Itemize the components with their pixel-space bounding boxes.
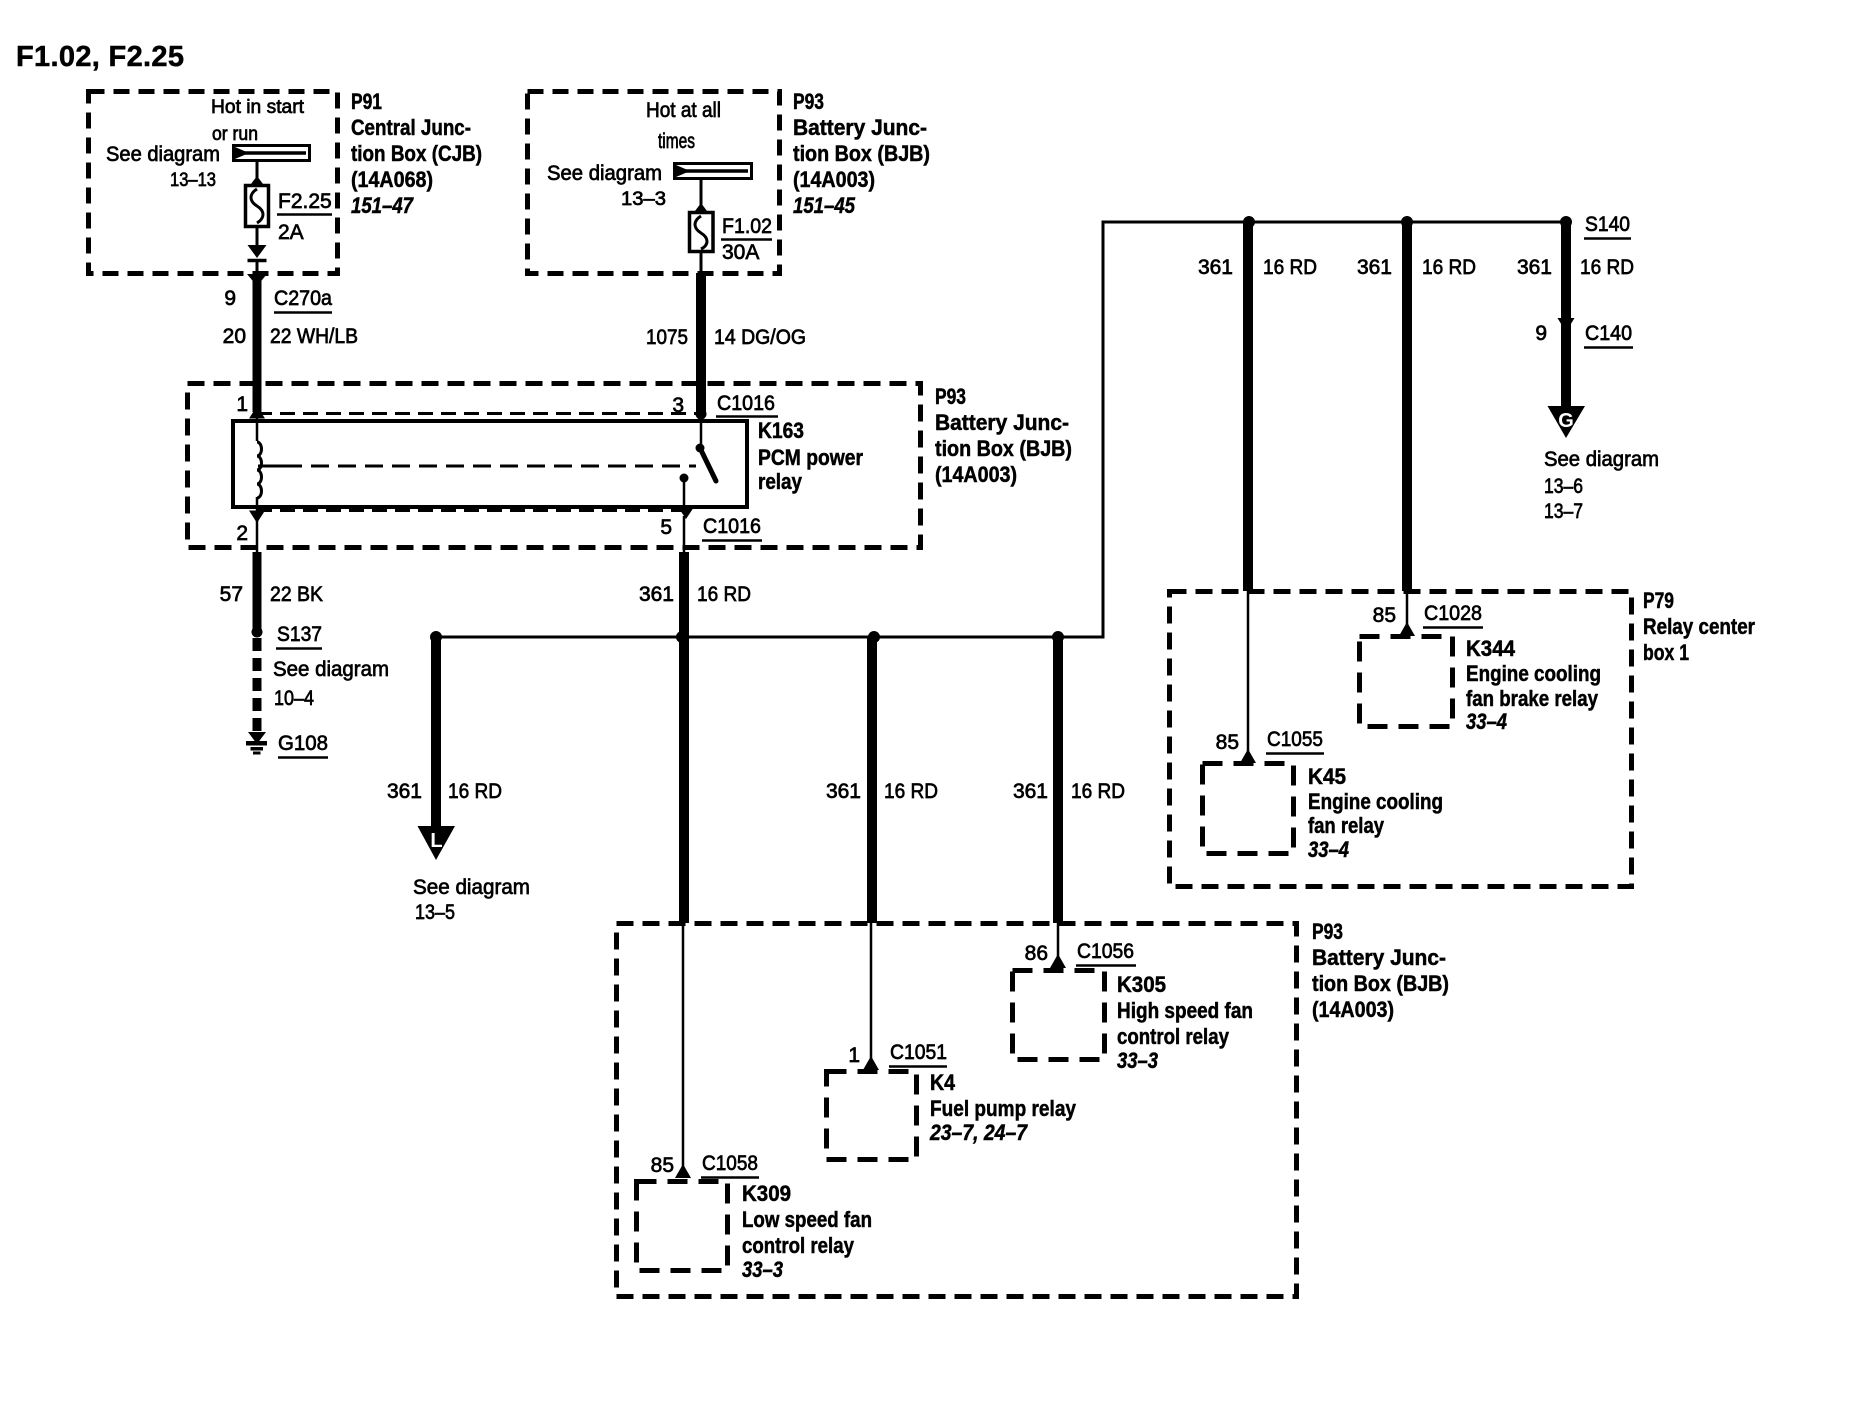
svg-text:C1028: C1028 bbox=[1424, 602, 1482, 625]
svg-text:9: 9 bbox=[1535, 322, 1547, 345]
svg-text:33–3: 33–3 bbox=[742, 1257, 783, 1282]
label K163 PCM power relay bbox=[758, 418, 863, 494]
svg-text:361: 361 bbox=[1198, 256, 1233, 279]
arrow at connector C140 bbox=[1558, 318, 1575, 332]
svg-text:fan relay: fan relay bbox=[1308, 813, 1385, 838]
svg-text:(14A068): (14A068) bbox=[351, 167, 433, 192]
label circuit 361 / 16 RD (below pin 5) bbox=[639, 583, 751, 606]
svg-text:16 RD: 16 RD bbox=[697, 583, 751, 606]
svg-text:85: 85 bbox=[1216, 731, 1239, 754]
label K45 Engine cooling fan relay bbox=[1308, 764, 1443, 862]
svg-text:K309: K309 bbox=[742, 1181, 791, 1206]
svg-text:K45: K45 bbox=[1308, 764, 1346, 789]
svg-text:Engine cooling: Engine cooling bbox=[1308, 789, 1443, 814]
label S140 bbox=[1584, 213, 1631, 239]
label circuit 1075 / 14 DG/OG bbox=[646, 326, 806, 349]
label pin 9 / connector C270a bbox=[224, 287, 332, 313]
fuse F2.25 bbox=[246, 186, 269, 227]
relay K309 (dashed) bbox=[637, 1182, 728, 1271]
svg-text:P93: P93 bbox=[935, 384, 966, 409]
svg-text:151–45: 151–45 bbox=[793, 193, 856, 218]
relay K305 (dashed) bbox=[1013, 971, 1105, 1060]
svg-text:13–3: 13–3 bbox=[621, 189, 666, 210]
svg-text:86: 86 bbox=[1025, 942, 1048, 965]
diode symbol in P91 bbox=[248, 245, 267, 261]
off-page arrow L bbox=[418, 826, 456, 860]
svg-text:Low speed fan: Low speed fan bbox=[742, 1207, 872, 1232]
fuse F1.02 bbox=[690, 213, 714, 252]
wire thin to K45 pin bbox=[1247, 591, 1250, 755]
svg-text:2: 2 bbox=[236, 522, 248, 545]
label K305 High speed fan control relay bbox=[1117, 972, 1253, 1073]
svg-text:361: 361 bbox=[826, 780, 861, 803]
svg-text:G108: G108 bbox=[278, 732, 328, 755]
svg-text:F1.02: F1.02 bbox=[722, 215, 772, 238]
switch blade (open) bbox=[700, 448, 716, 481]
svg-text:tion Box (BJB): tion Box (BJB) bbox=[935, 436, 1072, 461]
splice dot S140 bbox=[1560, 216, 1572, 228]
svg-text:tion Box (CJB): tion Box (CJB) bbox=[351, 141, 482, 166]
svg-text:See diagram: See diagram bbox=[273, 658, 389, 681]
label P93 Battery Junction Box (BJB) bottom bbox=[1312, 919, 1449, 1022]
wire thin to K305 pin bbox=[1057, 923, 1060, 960]
wire busbar to fuse F1.02 bbox=[700, 179, 703, 207]
splice dot on top bus at K45 branch bbox=[1243, 216, 1255, 228]
svg-text:361: 361 bbox=[1517, 256, 1552, 279]
splice dot on top bus at K344 branch bbox=[1401, 216, 1413, 228]
label K344 Engine cooling fan brake relay bbox=[1466, 636, 1601, 734]
svg-text:22 BK: 22 BK bbox=[270, 583, 323, 606]
label P79 Relay center box 1 bbox=[1643, 588, 1755, 665]
splice node S137 bbox=[252, 627, 263, 638]
relay coil K163 bbox=[257, 442, 262, 498]
wire branch to K4 down from junction bbox=[867, 637, 877, 923]
svg-text:Engine cooling: Engine cooling bbox=[1466, 661, 1601, 686]
svg-text:See diagram: See diagram bbox=[1544, 448, 1659, 471]
svg-text:9: 9 bbox=[224, 287, 236, 310]
svg-text:control relay: control relay bbox=[1117, 1024, 1230, 1049]
svg-text:F1.02, F2.25: F1.02, F2.25 bbox=[16, 41, 184, 73]
switch contact dot bbox=[696, 444, 705, 453]
label pin 85 / connector C1028 bbox=[1373, 602, 1483, 628]
wire 16 RD down to K344 bbox=[1402, 222, 1412, 591]
svg-text:5: 5 bbox=[660, 516, 672, 539]
svg-text:16 RD: 16 RD bbox=[1071, 780, 1125, 803]
wire 16 RD down to K45 bbox=[1243, 222, 1253, 591]
wire thin to K344 pin bbox=[1406, 591, 1409, 628]
svg-text:3: 3 bbox=[672, 394, 684, 417]
label F1.02 / 30A bbox=[721, 215, 772, 264]
svg-text:14 DG/OG: 14 DG/OG bbox=[714, 326, 806, 349]
junction box P93 (Battery Junction Box top, dashed) bbox=[528, 92, 780, 274]
svg-text:fan brake relay: fan brake relay bbox=[1466, 686, 1599, 711]
wire pin1 to coil bbox=[256, 416, 259, 441]
relay K344 (dashed) bbox=[1360, 637, 1453, 727]
off-page ground arrow G bbox=[1548, 406, 1586, 438]
svg-text:23–7, 24–7: 23–7, 24–7 bbox=[929, 1120, 1028, 1145]
splice dot on junction bus at K305 branch bbox=[1052, 631, 1064, 643]
arrow into K4 pin 1 bbox=[863, 1056, 879, 1070]
svg-text:85: 85 bbox=[1373, 604, 1396, 627]
svg-text:33–4: 33–4 bbox=[1466, 709, 1507, 734]
svg-text:times: times bbox=[658, 130, 695, 153]
svg-text:P93: P93 bbox=[793, 89, 824, 114]
wire C270a down to relay pin 1 bbox=[253, 276, 262, 412]
label See diagram 13-6 13-7 bbox=[1544, 448, 1659, 523]
wire 16 RD pin5 down through junction to bottom box bbox=[679, 552, 689, 923]
arrow into fuse F1.02 bbox=[694, 203, 709, 213]
wire pin3 to switch contact bbox=[700, 414, 703, 448]
svg-text:K344: K344 bbox=[1466, 636, 1516, 661]
svg-text:P79: P79 bbox=[1643, 588, 1674, 613]
label P91 Central Junction Box (CJB) bbox=[351, 89, 482, 218]
svg-text:or run: or run bbox=[212, 124, 258, 145]
label F2.25 / 2A bbox=[277, 190, 332, 244]
svg-text:Relay center: Relay center bbox=[1643, 614, 1755, 639]
svg-text:361: 361 bbox=[639, 583, 674, 606]
arrow into K344 pin 85 bbox=[1399, 622, 1415, 636]
relay K163 body bbox=[233, 421, 747, 507]
svg-text:1: 1 bbox=[236, 393, 248, 416]
label S137 bbox=[276, 623, 322, 649]
pin 1 arrow bbox=[249, 406, 265, 419]
wire thin to K309 pin bbox=[682, 923, 685, 1172]
label circuit 361 / 16 RD (K4 branch) bbox=[826, 780, 938, 803]
svg-text:57: 57 bbox=[220, 583, 243, 606]
pin 3 node dot bbox=[696, 409, 707, 420]
svg-text:box 1: box 1 bbox=[1643, 640, 1689, 665]
arrow into K309 pin 85 bbox=[675, 1164, 691, 1178]
arrow into K305 pin 86 bbox=[1050, 954, 1066, 968]
svg-text:C1056: C1056 bbox=[1077, 940, 1134, 963]
svg-text:C1051: C1051 bbox=[890, 1041, 947, 1064]
svg-text:G: G bbox=[1558, 410, 1574, 432]
wire busbar to fuse F2.25 bbox=[256, 160, 259, 180]
wire 14 DG/OG down to relay pin 3 bbox=[696, 273, 706, 414]
relay actuation dashed line bbox=[258, 465, 696, 468]
label pin 86 / connector C1056 bbox=[1025, 940, 1136, 966]
svg-text:K305: K305 bbox=[1117, 972, 1166, 997]
label K4 Fuel pump relay bbox=[929, 1070, 1077, 1145]
svg-text:F2.25: F2.25 bbox=[278, 190, 332, 213]
svg-text:Hot at all: Hot at all bbox=[646, 99, 721, 122]
svg-text:PCM power: PCM power bbox=[758, 445, 863, 470]
svg-text:K4: K4 bbox=[930, 1070, 956, 1095]
svg-text:16 RD: 16 RD bbox=[1263, 256, 1317, 279]
svg-text:tion Box (BJB): tion Box (BJB) bbox=[1312, 971, 1449, 996]
wire C140 down to ground arrow G bbox=[1561, 322, 1571, 410]
label See diagram 13-3 bbox=[547, 162, 666, 210]
svg-text:Central Junc-: Central Junc- bbox=[351, 115, 471, 140]
connector dashed line C1016 top bbox=[257, 412, 700, 415]
svg-text:16 RD: 16 RD bbox=[1422, 256, 1476, 279]
wire diode to box edge bbox=[256, 262, 259, 274]
svg-text:Battery Junc-: Battery Junc- bbox=[1312, 945, 1446, 970]
label circuit 361 / 16 RD (K45 branch) bbox=[1198, 256, 1317, 279]
svg-text:Battery Junc-: Battery Junc- bbox=[793, 115, 927, 140]
arrow into fuse F2.25 bbox=[250, 176, 265, 186]
svg-text:tion Box (BJB): tion Box (BJB) bbox=[793, 141, 930, 166]
svg-text:C270a: C270a bbox=[274, 287, 332, 310]
wire thin to K4 pin bbox=[870, 923, 873, 1062]
ground G108 bbox=[246, 732, 267, 755]
svg-text:16 RD: 16 RD bbox=[1580, 256, 1634, 279]
svg-text:C1055: C1055 bbox=[1267, 728, 1323, 751]
label connector C1016 bottom bbox=[702, 515, 762, 541]
svg-text:33–3: 33–3 bbox=[1117, 1048, 1158, 1073]
svg-text:C140: C140 bbox=[1585, 322, 1632, 345]
relay K4 (dashed) bbox=[827, 1072, 917, 1160]
pin 5 arrow bbox=[678, 507, 694, 519]
svg-text:control relay: control relay bbox=[742, 1233, 855, 1258]
wire fuse to diode bbox=[256, 226, 259, 245]
svg-text:See diagram: See diagram bbox=[413, 876, 530, 899]
svg-text:361: 361 bbox=[387, 780, 422, 803]
svg-text:(14A003): (14A003) bbox=[793, 167, 875, 192]
svg-text:151–47: 151–47 bbox=[351, 193, 414, 218]
svg-text:relay: relay bbox=[758, 469, 803, 494]
arrow into K45 pin 85 bbox=[1240, 749, 1256, 763]
label K309 Low speed fan control relay bbox=[742, 1181, 872, 1282]
wire (dashed) S137 to ground G108 bbox=[253, 638, 262, 731]
splice dot on junction bus at branch L bbox=[430, 631, 442, 643]
svg-text:S137: S137 bbox=[277, 623, 322, 646]
svg-text:1: 1 bbox=[848, 1044, 860, 1067]
svg-text:30A: 30A bbox=[722, 241, 759, 264]
wire riser to top bus bbox=[1102, 222, 1105, 637]
wire pin2 to box edge bbox=[256, 520, 259, 553]
label circuit 361 / 16 RD (branch L) bbox=[387, 780, 502, 803]
wire 22 BK pin2 down to S137 bbox=[253, 552, 262, 632]
label circuit 361 / 16 RD (S140 branch) bbox=[1517, 256, 1634, 279]
svg-text:(14A003): (14A003) bbox=[935, 462, 1017, 487]
svg-text:Hot in start: Hot in start bbox=[211, 97, 305, 118]
pin 2 arrow bbox=[249, 511, 265, 524]
relay center box P79 (dashed) bbox=[1170, 592, 1632, 887]
svg-text:(14A003): (14A003) bbox=[1312, 997, 1394, 1022]
svg-text:85: 85 bbox=[651, 1154, 674, 1177]
wire pin5 to box edge bbox=[683, 516, 686, 552]
label pin 9 / connector C140 bbox=[1535, 322, 1633, 348]
bus bar (hot feed) in P91 bbox=[234, 146, 310, 161]
wire pin5 inside relay bbox=[683, 478, 686, 509]
svg-text:1075: 1075 bbox=[646, 326, 688, 349]
junction box P93 BJB bottom (dashed) bbox=[617, 924, 1297, 1297]
svg-text:C1016: C1016 bbox=[717, 392, 775, 415]
label See diagram 13-5 bbox=[413, 876, 530, 924]
pin 5 node dot bbox=[680, 474, 689, 483]
svg-text:13–13: 13–13 bbox=[170, 170, 216, 191]
label circuit 20 / 22 WH/LB bbox=[223, 325, 358, 348]
svg-text:13–5: 13–5 bbox=[415, 901, 455, 924]
connector dashed line C1016 bottom bbox=[257, 509, 686, 512]
svg-text:361: 361 bbox=[1013, 780, 1048, 803]
svg-text:10–4: 10–4 bbox=[274, 687, 314, 710]
wire 16 RD S140 down to C140 bbox=[1561, 222, 1571, 320]
svg-text:2A: 2A bbox=[278, 221, 304, 244]
svg-text:22 WH/LB: 22 WH/LB bbox=[270, 325, 358, 348]
label connector C1016 top bbox=[716, 392, 778, 417]
svg-text:20: 20 bbox=[223, 325, 246, 348]
svg-text:13–7: 13–7 bbox=[1544, 500, 1583, 523]
svg-text:Battery Junc-: Battery Junc- bbox=[935, 410, 1069, 435]
label pin 85 / connector C1058 bbox=[651, 1152, 759, 1178]
wire coil to pin2 bbox=[256, 497, 259, 511]
label G108 bbox=[278, 732, 328, 758]
label Hot at all times bbox=[646, 99, 721, 153]
svg-text:Fuel pump relay: Fuel pump relay bbox=[930, 1096, 1077, 1121]
bus bar (hot feed) in P93 bbox=[675, 164, 752, 179]
label pin 85 / connector C1055 bbox=[1216, 728, 1324, 754]
label pin 1 / connector C1051 bbox=[848, 1041, 947, 1067]
label See diagram 13-13 bbox=[106, 143, 220, 191]
wire top bus horizontal to S140 bbox=[1102, 221, 1567, 224]
arrow at C270a connector bbox=[247, 274, 267, 286]
svg-text:361: 361 bbox=[1357, 256, 1392, 279]
label P93 Battery Junction Box (BJB) right of relay box bbox=[935, 384, 1072, 487]
svg-text:High speed fan: High speed fan bbox=[1117, 998, 1253, 1023]
svg-text:16 RD: 16 RD bbox=[448, 780, 502, 803]
label circuit 57 / 22 BK bbox=[220, 583, 323, 606]
label Hot in start / or run bbox=[211, 97, 305, 145]
wire fuse to box edge bbox=[700, 251, 703, 273]
wire branch L down from junction bbox=[431, 637, 441, 830]
svg-text:K163: K163 bbox=[758, 418, 804, 443]
junction box P91 (Central Junction Box, dashed) bbox=[89, 92, 338, 274]
svg-text:33–4: 33–4 bbox=[1308, 837, 1349, 862]
svg-text:P91: P91 bbox=[351, 89, 382, 114]
wire branch to K305 down from junction bbox=[1053, 637, 1063, 923]
splice dot on junction bus at pin5 wire bbox=[676, 631, 688, 643]
svg-text:S140: S140 bbox=[1585, 213, 1630, 236]
junction box P93 BJB around relay (dashed) bbox=[188, 384, 921, 548]
label circuit 361 / 16 RD (K344 branch) bbox=[1357, 256, 1476, 279]
svg-text:C1016: C1016 bbox=[703, 515, 761, 538]
label See diagram 10-4 bbox=[273, 658, 389, 710]
splice dot on junction bus at K4 branch bbox=[868, 631, 880, 643]
svg-text:16 RD: 16 RD bbox=[884, 780, 938, 803]
svg-text:13–6: 13–6 bbox=[1544, 475, 1583, 498]
svg-text:P93: P93 bbox=[1312, 919, 1343, 944]
svg-text:C1058: C1058 bbox=[702, 1152, 758, 1175]
relay K45 (dashed) bbox=[1203, 764, 1294, 854]
wire junction bus horizontal bbox=[436, 636, 1105, 639]
label circuit 361 / 16 RD (K305 branch) bbox=[1013, 780, 1125, 803]
svg-text:See diagram: See diagram bbox=[547, 162, 662, 185]
svg-text:See diagram: See diagram bbox=[106, 143, 220, 166]
label P93 Battery Junction Box (BJB) bbox=[793, 89, 930, 218]
svg-text:L: L bbox=[430, 830, 442, 852]
